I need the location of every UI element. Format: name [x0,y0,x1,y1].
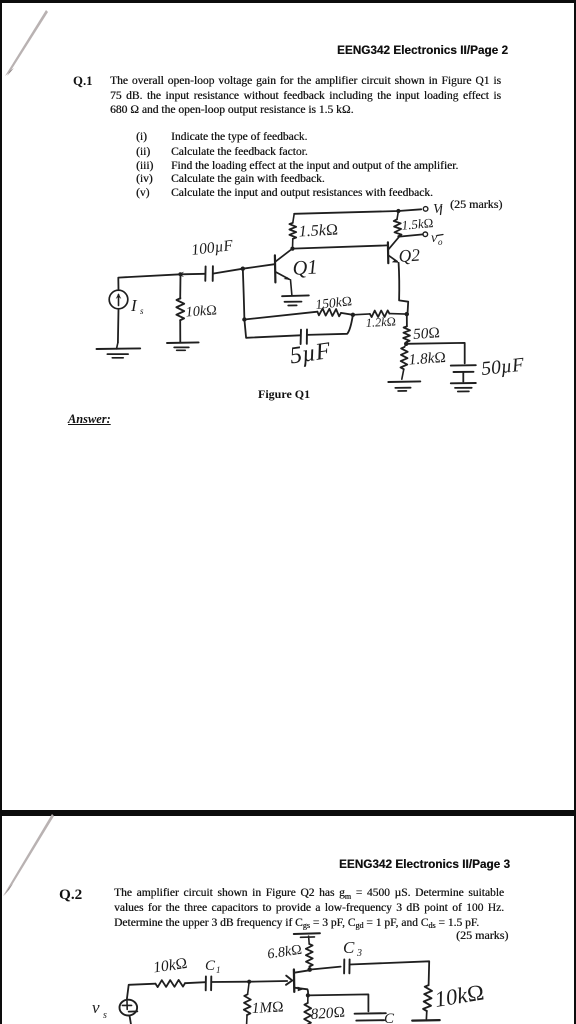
wire input node down to 10k [179,274,181,298]
svg-text:o: o [438,237,443,247]
black frame: right border [574,0,576,1024]
resistor 10kΩ (output) [423,985,432,1019]
wire C1 to gate node [211,981,249,983]
svg-text:1.5kΩ: 1.5kΩ [401,215,434,233]
ground under Q1 emitter [282,295,309,305]
supply rail bar above 6.8k [294,933,320,937]
svg-text:1MΩ: 1MΩ [251,998,284,1017]
wire node A down to node B [243,269,245,320]
crease page 3 top-left [3,814,54,896]
resistor 1.5kΩ (Q2 collector load) [394,211,402,236]
terminal Vo [423,232,428,237]
gate arrow chevron [286,976,292,985]
svg-text:s: s [140,306,144,316]
svg-text:C: C [343,938,355,957]
resistor 50Ω [403,326,410,342]
svg-text:C: C [205,958,216,974]
svg-text:820Ω: 820Ω [310,1004,346,1023]
wire Is top to input node [118,274,180,290]
current source Is [109,290,128,309]
svg-text:150kΩ: 150kΩ [315,293,353,312]
svg-text:1.8kΩ: 1.8kΩ [408,349,446,369]
svg-text:v: v [431,231,438,246]
svg-text:C: C [384,1011,395,1024]
junction top of right 1.5k [396,209,400,213]
resistor 1.8kΩ [401,344,408,379]
ground under 1.8k [388,381,420,391]
ground under 10k [167,342,199,350]
svg-text:v: v [92,998,100,1017]
resistor 1.5kΩ (Q1 collector load) [289,214,296,249]
wire C3 to output 10k [350,961,430,985]
node Q1 collector junction [290,247,294,251]
page separator bar [0,810,576,816]
label vo [431,231,443,247]
transistor Q1 [275,249,292,296]
wire input node to 100uF [181,273,206,276]
svg-text:50µF: 50µF [480,355,526,380]
label vs [92,998,107,1021]
wire Is bottom to ground [117,309,120,343]
wire vs to series 10k [127,984,156,1000]
junction FET source node [306,993,310,997]
svg-text:10kΩ: 10kΩ [185,302,217,320]
wire source node to Cs [308,994,369,1011]
capacitor C3 [344,959,350,973]
resistor 1.2kΩ [353,310,407,317]
svg-text:100µF: 100µF [190,237,234,259]
svg-text:1.2kΩ: 1.2kΩ [365,314,396,330]
resistor 10kΩ (input shunt) [176,298,184,320]
transistor (FET) of figure Q2 [294,970,310,996]
svg-text:10kΩ: 10kΩ [152,955,188,977]
terminal V1 [423,207,428,212]
resistor 6.8kΩ (drain load) [306,936,313,969]
junction gate node [247,980,251,984]
junction dot input node [178,272,182,276]
svg-text:1: 1 [216,965,221,975]
resistor 10kΩ (series) [156,980,186,987]
wire node A to Q1 base [243,264,275,269]
svg-text:50Ω: 50Ω [413,324,441,343]
black frame: top bar [0,0,576,3]
junction 50Ω / 1.8k / 50uF [404,342,408,346]
wire 5uF right plate up to 150k/1.2k junction [307,315,353,335]
wire top rail to V1 terminal [294,209,421,214]
label V1 [433,202,443,217]
svg-text:10kΩ: 10kΩ [433,979,486,1011]
wire 50uF to ground [462,372,464,382]
label C3 [343,938,362,959]
junction Q2 emitter / 1.2k / 50Ω [405,312,409,316]
svg-text:I: I [130,296,138,315]
resistor 1MΩ [244,982,251,1024]
capacitor 50µF [451,365,476,372]
wire Q2 emitter down with jog [399,263,409,314]
wire Q1 collector node to Q2 base [293,245,387,248]
wire junction down to 50Ω [406,314,408,326]
transistor Q2 [388,237,399,264]
svg-text:6.8kΩ: 6.8kΩ [266,942,303,963]
svg-text:5µF: 5µF [288,338,332,369]
wire 150k to mid junction [341,313,353,315]
resistor 820Ω [304,995,311,1024]
ground under Is [97,343,141,358]
wire 10k to ground [179,320,181,342]
wire node B to 150k [244,312,317,320]
wire below vs [130,1015,132,1024]
black frame: left border [0,0,2,1024]
capacitor C1 [206,976,212,990]
svg-text:Q2: Q2 [398,245,421,266]
ground bar under output 10k [412,1019,440,1022]
wire node B down and right to 5uF [244,320,300,338]
wire 10k to C1 [185,982,205,983]
wire gate node to FET gate [249,980,287,983]
wire drain node to C3 [310,967,341,970]
capacitor 5µF [301,330,307,345]
label Is [130,296,144,316]
arrowhead at input node [177,272,185,277]
wire Q2 collector to Vo terminal [399,234,423,236]
svg-text:s: s [103,1010,107,1021]
label C1 [205,958,221,975]
capacitor 100µF [205,266,213,281]
junction 150k/1.2k [351,313,355,317]
ground under 50uF [451,383,476,392]
svg-text:Q1: Q1 [292,256,319,280]
junction drain node [307,967,312,972]
wire 100uF to node A [213,269,243,274]
source vs [120,1000,138,1016]
capacitor Cs [355,1013,386,1020]
wire junction to 50uF [406,343,465,364]
svg-text:1.5kΩ: 1.5kΩ [298,221,338,240]
node B junction [242,317,246,321]
resistor 150kΩ [317,309,341,317]
svg-text:3: 3 [356,948,362,959]
node A junction [241,267,245,271]
